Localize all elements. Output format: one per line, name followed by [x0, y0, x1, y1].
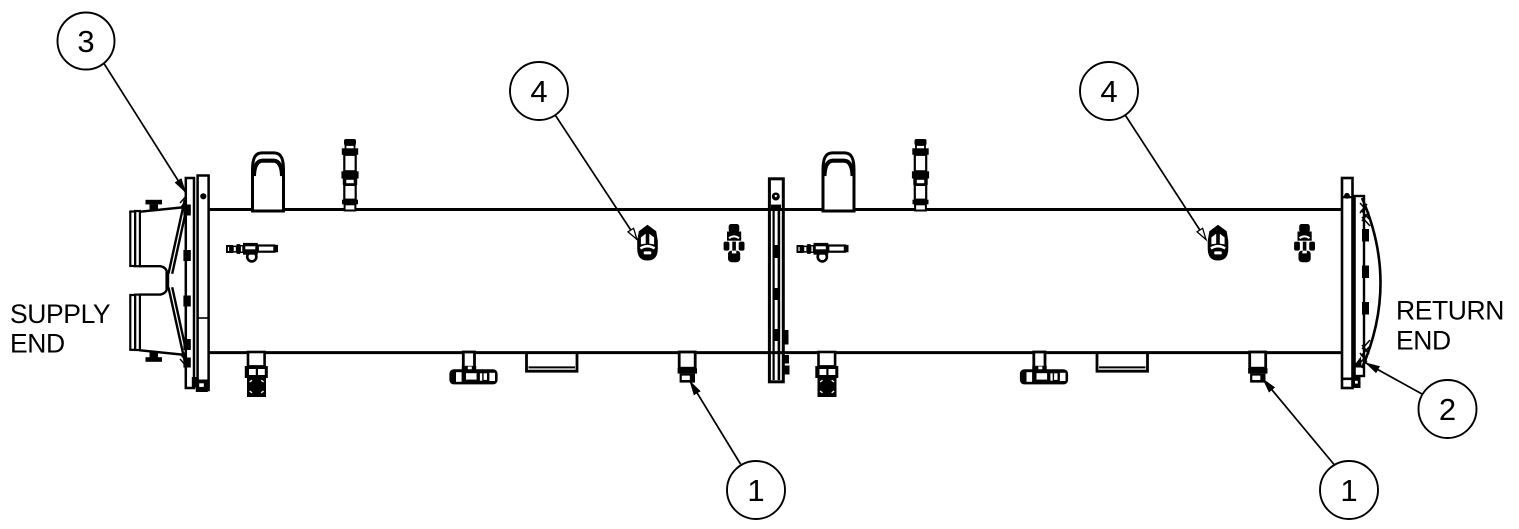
svg-text:4: 4 [530, 74, 547, 109]
return bottom weld wedge [1353, 357, 1362, 368]
callout 4 left [556, 116, 638, 240]
svg-text:4: 4 [1100, 74, 1117, 109]
callout 1 right [1263, 379, 1335, 466]
return end flange plate 1 [1342, 178, 1353, 388]
center flange joint band [771, 205, 781, 210]
svg-text:2: 2 [1439, 392, 1456, 427]
return end flange plate 2 [1355, 196, 1364, 376]
center flange bolt hole [772, 193, 780, 201]
supply end inlet Y-branch [139, 200, 188, 362]
svg-text:RETURN: RETURN [1396, 296, 1504, 326]
callout 1 left [690, 381, 741, 465]
tube bottom line [208, 351, 1342, 354]
center flange joint dashes [774, 245, 779, 258]
return plate1 bottom cell line [1342, 377, 1353, 380]
weld hatch top [180, 194, 190, 210]
left half fittings [226, 139, 745, 397]
right half fittings [797, 139, 1316, 397]
tube top line [208, 208, 1342, 211]
callout 3 [104, 64, 186, 194]
weld hatch bottom [180, 352, 190, 368]
supply flange bottom bolt [192, 377, 199, 388]
return flange bolts [1362, 229, 1369, 242]
return weld hatch top [1360, 203, 1370, 226]
supply flange plate A [186, 178, 194, 388]
plate A bolts [183, 205, 190, 216]
top stub bolt [146, 200, 163, 205]
plate B joint tick [198, 317, 209, 319]
plate B bolt hole [200, 193, 206, 199]
bottom stub bolt [146, 357, 163, 362]
return flange bolt hole [1342, 196, 1353, 198]
svg-text:3: 3 [77, 24, 94, 59]
svg-text:1: 1 [1340, 473, 1357, 508]
svg-text:1: 1 [747, 473, 764, 508]
callout 4 right [1126, 116, 1207, 240]
svg-text:END: END [10, 329, 65, 359]
supply stub flange rims [130, 211, 140, 350]
svg-text:SUPPLY: SUPPLY [10, 299, 111, 329]
return weld hatch bottom [1360, 340, 1370, 363]
supply flange plate B [198, 176, 209, 391]
center flange bolts [783, 330, 789, 345]
return bottom bolt [1352, 376, 1361, 388]
center joint flange [769, 179, 783, 382]
svg-text:END: END [1396, 326, 1451, 356]
callout 2 [1365, 363, 1422, 395]
return dished head arc [1362, 198, 1381, 368]
